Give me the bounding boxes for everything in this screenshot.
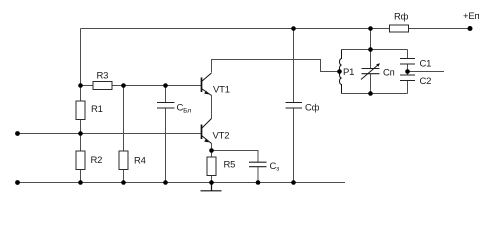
wire tank top bar [342, 49, 408, 51]
svg-text:+Eп: +Eп [463, 11, 479, 22]
resistor R5 [207, 157, 216, 176]
svg-text:VT2: VT2 [213, 131, 230, 142]
node input upper terminal [15, 131, 20, 136]
node tank branch on supply rail [368, 26, 373, 31]
node C3 bottom junction [256, 180, 261, 185]
wire VT1 collector to tank [212, 60, 342, 73]
node R3 left junction [78, 83, 83, 88]
transistor VT1 [202, 73, 212, 96]
label +En supply [463, 11, 479, 22]
label Rf [394, 12, 409, 23]
resistor R1 [76, 101, 85, 120]
wire tank bottom bar [342, 93, 408, 95]
node Cbl bottom junction [163, 180, 168, 185]
svg-text:R5: R5 [224, 160, 236, 171]
wire VT1 emitter to VT2 collector [211, 96, 213, 119]
resistor R2 [76, 151, 85, 170]
svg-text:VT1: VT1 [213, 85, 230, 96]
node R1-R2 junction [78, 131, 83, 136]
resistor R3 [93, 82, 112, 90]
wire Cbl branch vertical x=165.5 [165, 86, 167, 183]
node Cf top junction [291, 26, 296, 31]
capacitor C2 plates [400, 75, 415, 81]
svg-text:C1: C1 [420, 59, 432, 70]
label R1 [91, 104, 103, 115]
resistor Rf (filter) [390, 25, 409, 32]
svg-text:R1: R1 [91, 104, 103, 115]
capacitor Cbl plates [157, 103, 175, 109]
svg-text:Cз: Cз [270, 161, 280, 173]
wire left vertical bus x=80.5 [80, 29, 82, 183]
wire supply to tank top x=370.5 [370, 29, 372, 50]
node VT2 emitter junction [209, 148, 214, 153]
wire top rail right of Rf [409, 28, 471, 30]
wire VT2 emitter to R5 [211, 144, 213, 158]
label VT2 [213, 131, 230, 142]
wire base rail of VT1 y=85.5 [81, 85, 202, 87]
label C1 [420, 59, 432, 70]
wire C1 C2 branch vertical [407, 50, 409, 94]
label R3 [97, 71, 109, 82]
wire bottom common rail y=182.5 [18, 182, 346, 184]
node R2 bottom junction [78, 180, 83, 185]
label Cf [305, 103, 320, 114]
capacitor Cp plates (variable) [362, 69, 380, 74]
label Cp [383, 68, 395, 79]
node tank bottom bar junction [368, 91, 373, 96]
svg-text:CБл: CБл [177, 103, 192, 115]
wire C3 bottom [257, 167, 259, 183]
capacitor C3 plates [249, 162, 267, 167]
node R4 bottom junction [121, 180, 126, 185]
inductor/resonator P1 with center tap [340, 50, 342, 94]
label P1 [343, 67, 354, 78]
svg-text:Rф: Rф [394, 12, 409, 23]
label R5 [224, 160, 236, 171]
wire emitter node to C3 [212, 151, 259, 163]
label C2 [420, 76, 432, 87]
node R3 right junction [121, 83, 126, 88]
svg-text:Cп: Cп [383, 68, 395, 79]
capacitor Cf plates [286, 103, 303, 109]
wire R5 bottom to rail [211, 176, 213, 183]
svg-text:R4: R4 [134, 156, 146, 167]
node C1-C2 tap [405, 69, 410, 74]
svg-text:R2: R2 [91, 155, 103, 166]
node P1 center tap [337, 69, 342, 74]
svg-text:R3: R3 [97, 71, 109, 82]
wire top supply rail [81, 28, 390, 30]
svg-text:Cф: Cф [305, 103, 320, 114]
svg-text:C2: C2 [420, 76, 432, 87]
label Cbl [177, 103, 192, 115]
node Cf bottom junction [291, 180, 296, 185]
wire middle input rail y=133.5 [18, 133, 202, 135]
wire R4 branch vertical x=123.5 [123, 86, 125, 183]
label VT1 [213, 85, 230, 96]
wire Cp branch vertical [370, 50, 372, 94]
wire tap line to P1 [321, 71, 342, 73]
label R2 [91, 155, 103, 166]
transistor VT2 [202, 119, 212, 144]
node +En supply terminal [468, 26, 473, 31]
label C3 [270, 161, 280, 173]
node tank top bar junction [368, 47, 373, 52]
node R5 bottom ground junction [209, 180, 214, 185]
capacitor C1 plates [400, 59, 415, 65]
wire Cf branch vertical x=293.5 [293, 29, 295, 183]
node Cbl top junction [163, 83, 168, 88]
ground symbol [201, 183, 222, 191]
variable capacitor Cp arrow [361, 63, 380, 79]
label R4 [134, 156, 146, 167]
svg-text:P1: P1 [343, 67, 354, 78]
resistor R4 [119, 151, 128, 170]
node input lower terminal [15, 180, 20, 185]
wire output from C1-C2 tap [408, 71, 445, 73]
